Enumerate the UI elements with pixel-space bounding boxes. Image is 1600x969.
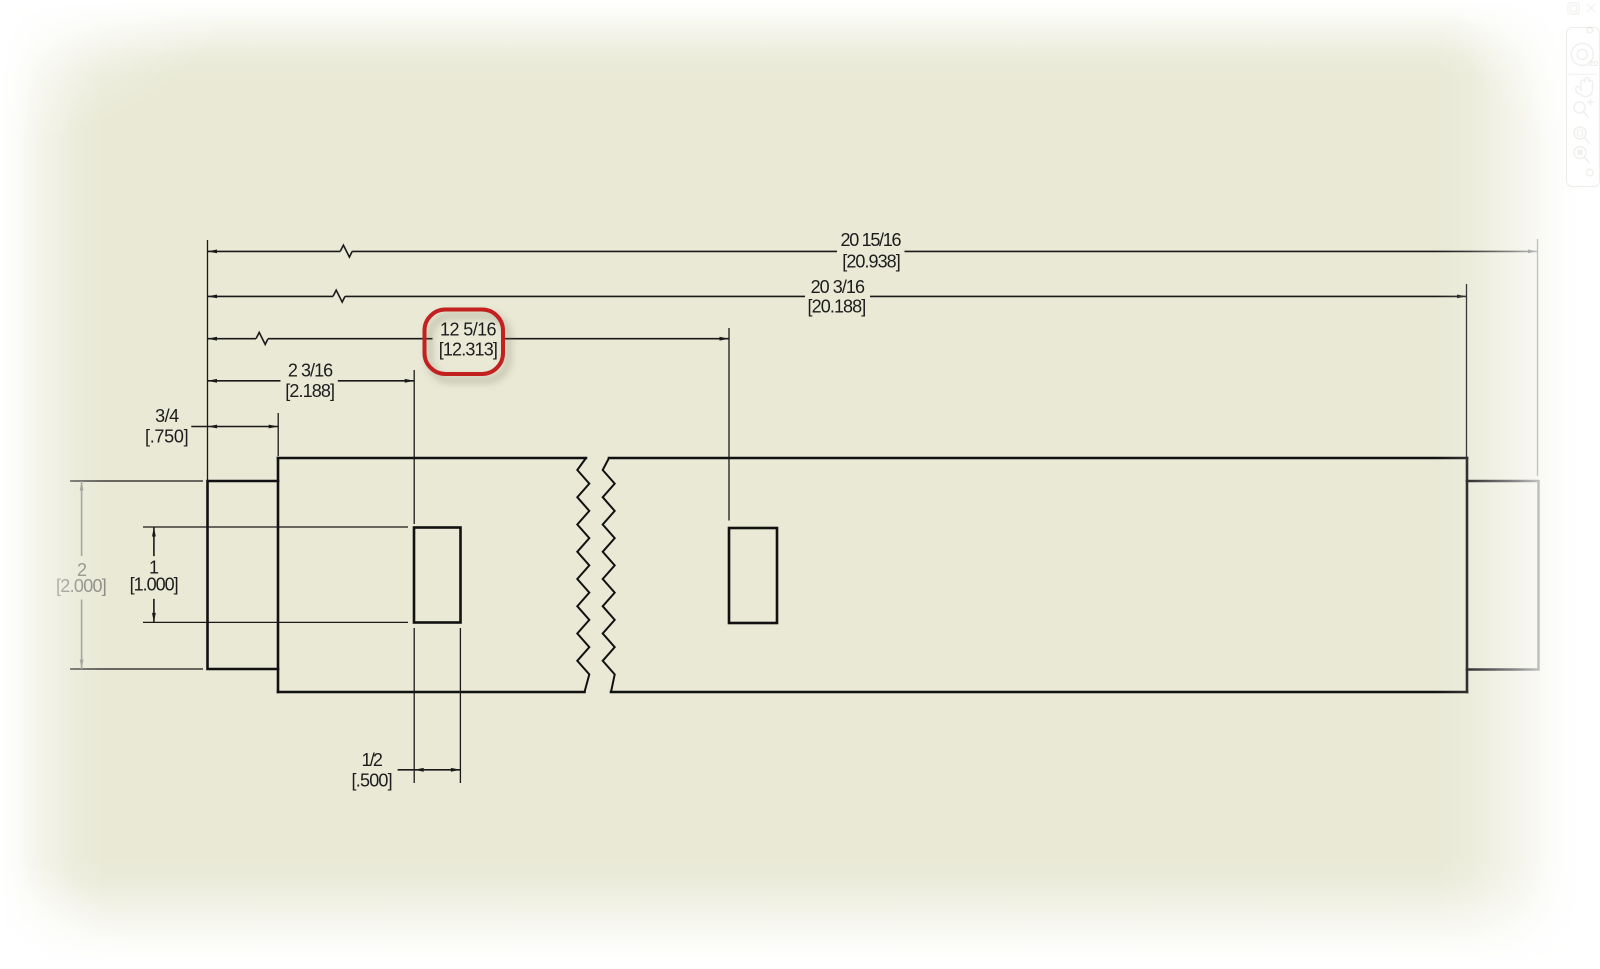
- svg-text:[2.000]: [2.000]: [56, 576, 107, 596]
- svg-text:12 5/16: 12 5/16: [440, 320, 497, 340]
- svg-text:20 3/16: 20 3/16: [811, 277, 865, 297]
- svg-text:1/2: 1/2: [361, 750, 383, 770]
- svg-text:3/4: 3/4: [155, 406, 179, 426]
- svg-text:20 15/16: 20 15/16: [841, 230, 902, 250]
- svg-text:2D: 2D: [1589, 59, 1599, 68]
- svg-text:[.750]: [.750]: [145, 427, 189, 447]
- svg-text:[1.000]: [1.000]: [130, 574, 179, 594]
- svg-text:[12.313]: [12.313]: [439, 340, 498, 360]
- svg-text:[.500]: [.500]: [352, 770, 393, 790]
- svg-text:2 3/16: 2 3/16: [288, 361, 333, 381]
- svg-text:[2.188]: [2.188]: [285, 381, 335, 401]
- svg-text:[20.938]: [20.938]: [842, 252, 901, 272]
- svg-text:[20.188]: [20.188]: [808, 296, 867, 316]
